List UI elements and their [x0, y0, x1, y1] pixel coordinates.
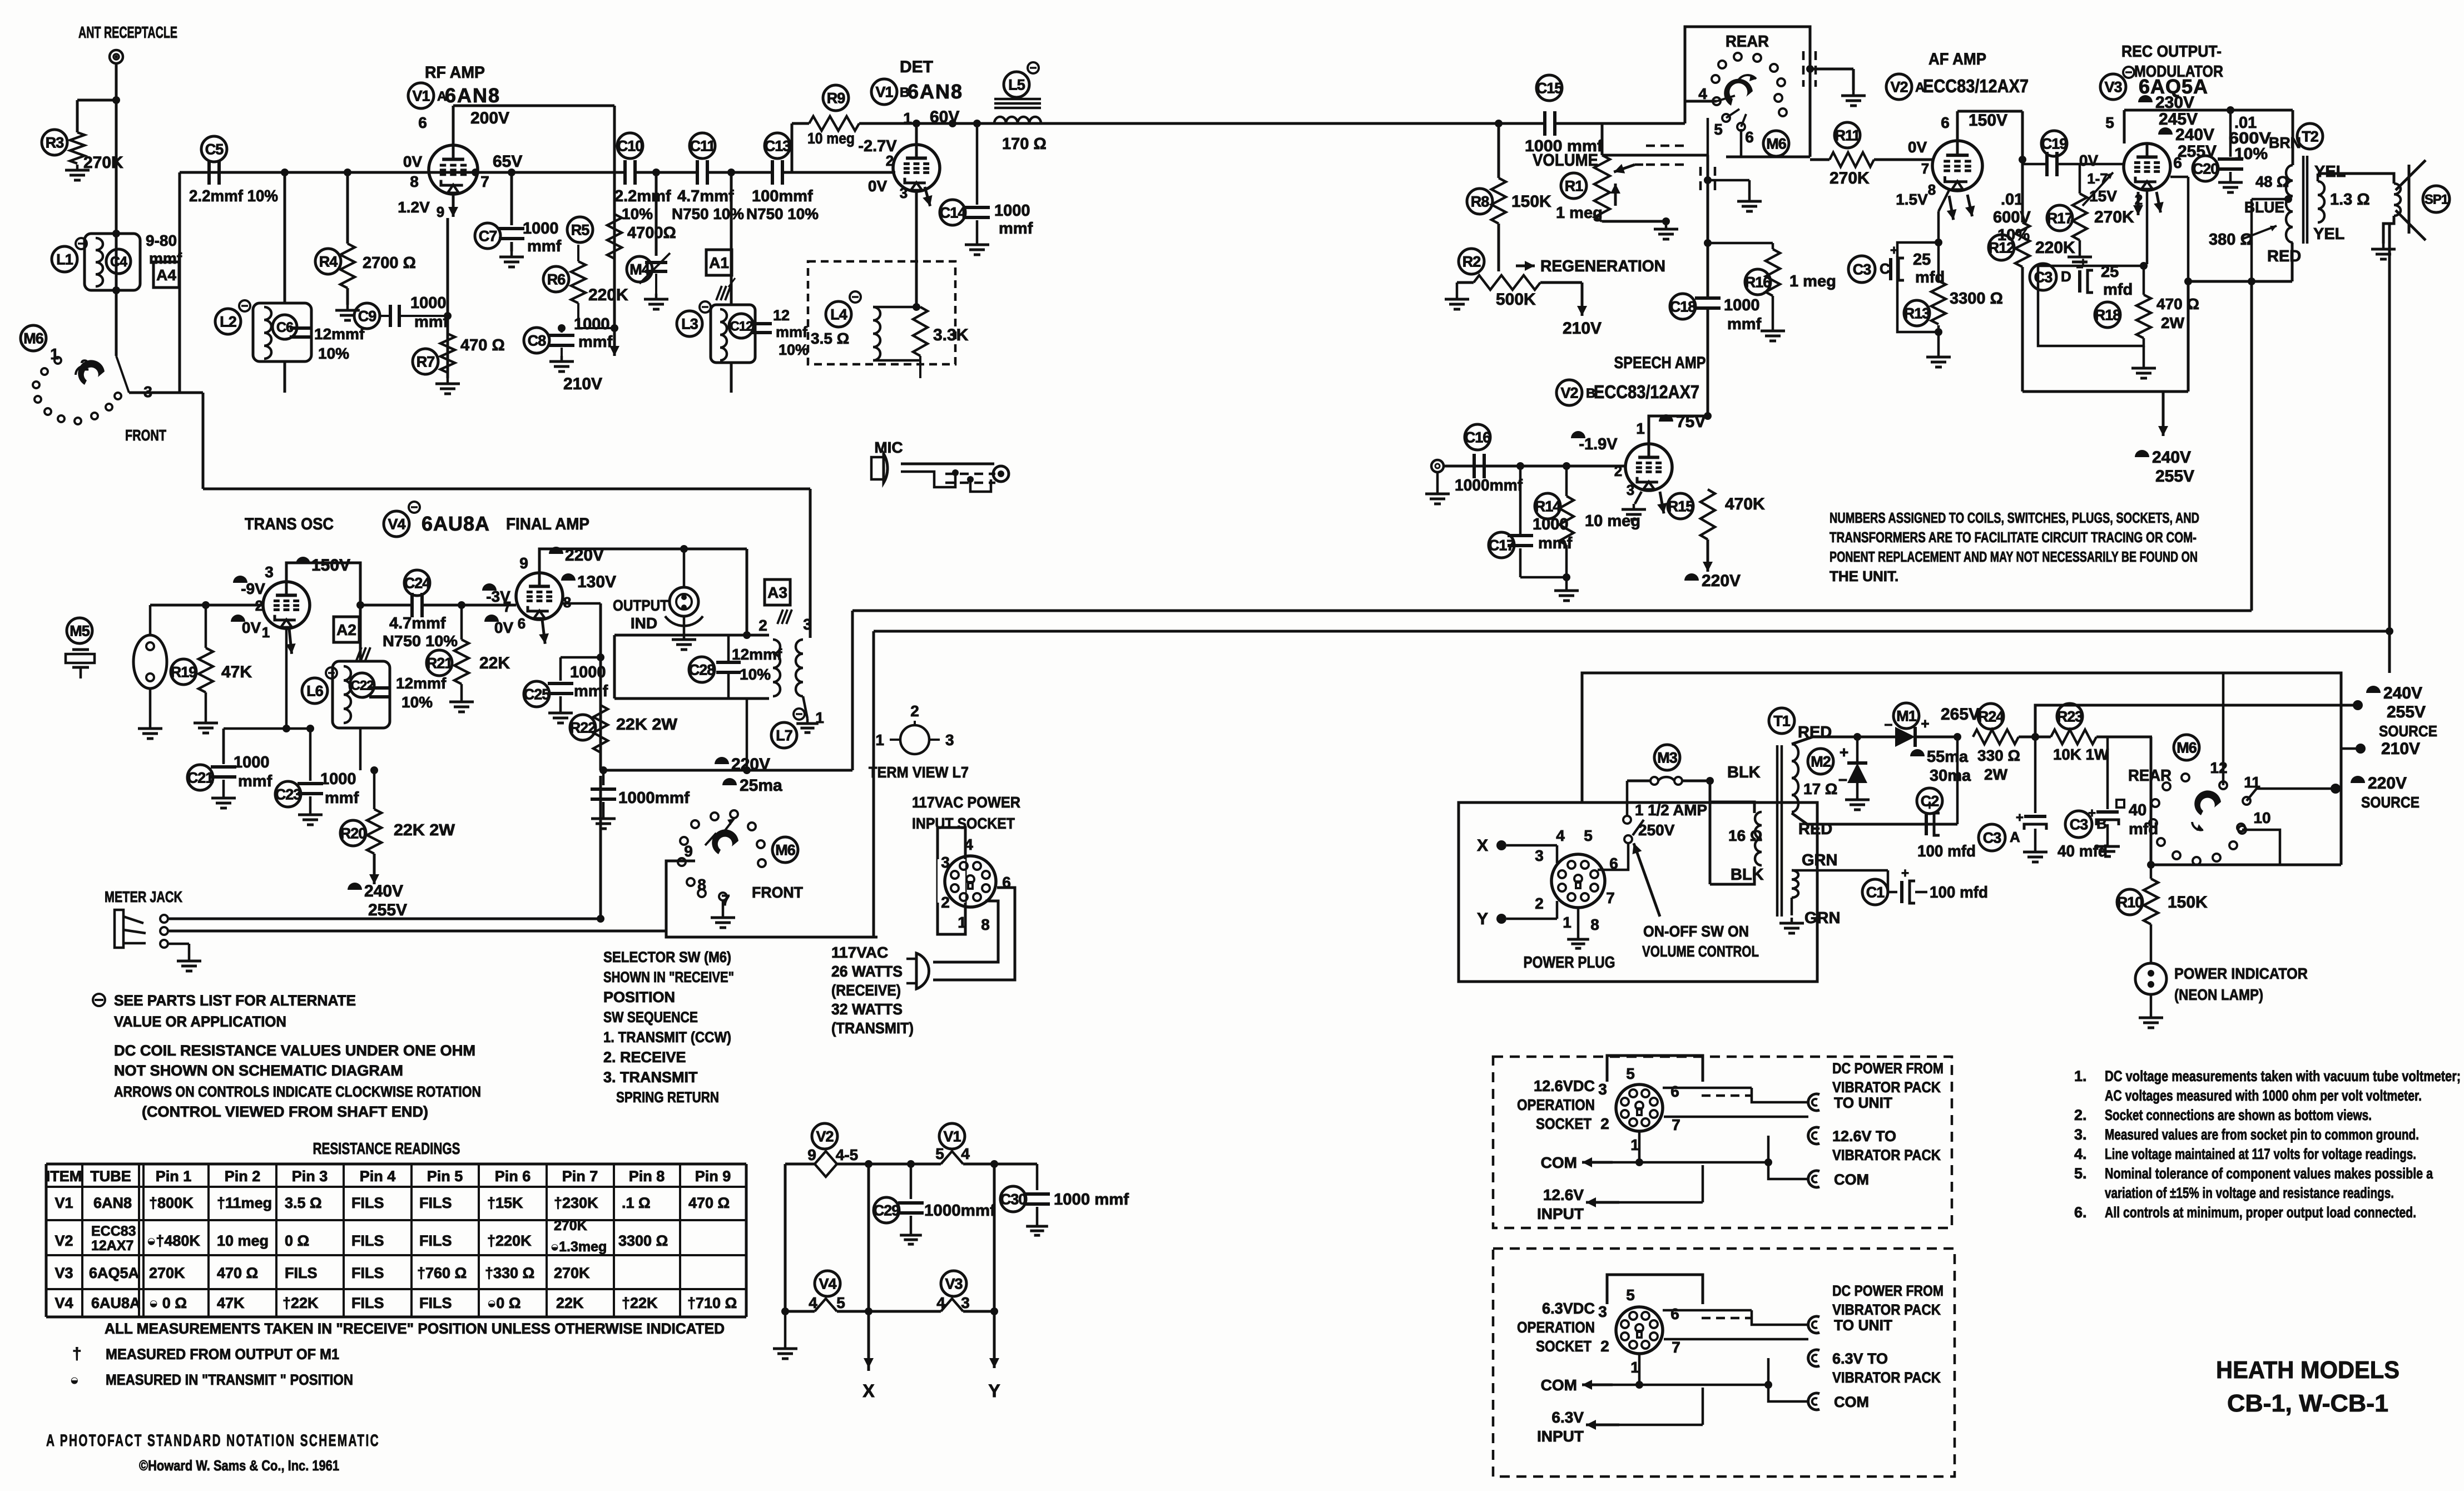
svg-text:26 WATTS: 26 WATTS: [831, 963, 903, 980]
svg-text:C10: C10: [617, 138, 643, 155]
svg-text:NUMBERS ASSIGNED TO COILS, SWI: NUMBERS ASSIGNED TO COILS, SWITCHES, PLU…: [1830, 509, 2199, 526]
svg-text:6: 6: [418, 114, 427, 131]
svg-text:X: X: [862, 1381, 875, 1401]
svg-text:†710 Ω: †710 Ω: [687, 1295, 737, 1311]
svg-text:R3: R3: [46, 135, 64, 151]
svg-text:SP1: SP1: [2425, 192, 2448, 207]
svg-text:255V: 255V: [2387, 703, 2426, 721]
svg-text:OPERATION: OPERATION: [1517, 1319, 1595, 1336]
svg-text:R10: R10: [2117, 894, 2143, 911]
svg-text:HEATH MODELS: HEATH MODELS: [2216, 1356, 2399, 1384]
svg-text:OPERATION: OPERATION: [1517, 1096, 1595, 1113]
svg-text:L7: L7: [776, 727, 792, 744]
svg-text:R7: R7: [417, 354, 435, 370]
svg-text:C19: C19: [2041, 136, 2068, 152]
svg-text:POWER PLUG: POWER PLUG: [1524, 954, 1615, 972]
svg-text:1000: 1000: [320, 770, 356, 788]
svg-text:Pin 5: Pin 5: [427, 1168, 463, 1185]
svg-text:†760 Ω: †760 Ω: [417, 1265, 467, 1281]
svg-text:+: +: [2016, 810, 2024, 825]
svg-text:R20: R20: [340, 825, 366, 842]
svg-text:A PHOTOFACT STANDARD NOTATION: A PHOTOFACT STANDARD NOTATION SCHEMATIC: [46, 1431, 380, 1450]
svg-text:470 Ω: 470 Ω: [217, 1265, 258, 1281]
svg-text:117VAC POWER: 117VAC POWER: [912, 794, 1020, 811]
svg-text:.1 Ω: .1 Ω: [622, 1195, 651, 1211]
svg-text:75V: 75V: [1676, 413, 1706, 431]
svg-text:240V: 240V: [2175, 126, 2214, 144]
svg-text:†15K: †15K: [487, 1195, 523, 1211]
svg-text:9: 9: [437, 204, 444, 220]
svg-text:270K: 270K: [554, 1218, 587, 1234]
svg-text:7: 7: [503, 598, 511, 615]
svg-text:10%: 10%: [622, 205, 653, 222]
svg-text:B: B: [2096, 815, 2107, 832]
svg-text:C5: C5: [205, 141, 224, 158]
svg-text:6AU8A: 6AU8A: [91, 1295, 141, 1311]
svg-text:2. RECEIVE: 2. RECEIVE: [603, 1049, 686, 1066]
svg-text:4: 4: [936, 1294, 945, 1311]
svg-text:4: 4: [1698, 85, 1707, 102]
svg-text:1: 1: [1636, 420, 1645, 437]
svg-text:VIBRATOR PACK: VIBRATOR PACK: [1832, 1369, 1941, 1386]
svg-text:22K 2W: 22K 2W: [394, 821, 455, 839]
svg-text:REAR: REAR: [1726, 33, 1769, 51]
svg-text:AF AMP: AF AMP: [1928, 50, 1986, 68]
svg-text:FILS: FILS: [419, 1195, 452, 1211]
svg-text:12.6V TO: 12.6V TO: [1832, 1128, 1896, 1145]
svg-text:0V: 0V: [242, 619, 261, 636]
svg-text:C24: C24: [404, 575, 431, 592]
svg-text:GRN: GRN: [1804, 909, 1840, 927]
svg-text:†330 Ω: †330 Ω: [485, 1265, 534, 1281]
svg-text:SW SEQUENCE: SW SEQUENCE: [603, 1009, 698, 1026]
svg-text:3. TRANSMIT: 3. TRANSMIT: [603, 1069, 698, 1086]
svg-text:POSITION: POSITION: [603, 989, 675, 1005]
svg-text:D: D: [2061, 268, 2071, 285]
svg-text:R9: R9: [827, 90, 845, 107]
svg-text:REGENERATION: REGENERATION: [1540, 257, 1665, 275]
svg-text:mmf: mmf: [325, 789, 359, 807]
svg-text:+: +: [1926, 798, 1933, 813]
svg-text:TRANSFORMERS ARE TO FACILITATE: TRANSFORMERS ARE TO FACILITATE CIRCUIT T…: [1830, 529, 2197, 546]
svg-text:M3: M3: [1657, 750, 1677, 766]
svg-text:Pin 7: Pin 7: [562, 1168, 598, 1185]
svg-text:R23: R23: [2057, 709, 2084, 725]
svg-text:6.3VDC: 6.3VDC: [1542, 1300, 1595, 1317]
svg-text:(RECEIVE): (RECEIVE): [831, 982, 901, 999]
svg-text:AC voltages measured with 1000: AC voltages measured with 1000 ohm per v…: [2105, 1087, 2422, 1104]
svg-text:2.2mmf 10%: 2.2mmf 10%: [189, 187, 278, 205]
svg-text:3300 Ω: 3300 Ω: [1950, 290, 2003, 308]
svg-text:1.2V: 1.2V: [398, 199, 430, 216]
svg-text:1.5V: 1.5V: [1896, 191, 1928, 208]
svg-text:10: 10: [2253, 809, 2270, 826]
svg-text:COM: COM: [1834, 1394, 1869, 1410]
svg-text:6AQ5A: 6AQ5A: [89, 1265, 139, 1281]
svg-text:1000mmf: 1000mmf: [1455, 477, 1523, 494]
svg-text:2W: 2W: [1984, 766, 2008, 783]
svg-text:VALUE OR APPLICATION: VALUE OR APPLICATION: [114, 1013, 286, 1030]
svg-text:R17: R17: [2047, 210, 2073, 227]
svg-text:TUBE: TUBE: [90, 1168, 131, 1185]
svg-text:3300 Ω: 3300 Ω: [618, 1232, 668, 1249]
svg-text:TRANS OSC: TRANS OSC: [245, 515, 334, 533]
svg-text:mmf: mmf: [527, 237, 562, 255]
svg-text:6: 6: [1670, 1305, 1679, 1322]
svg-text:500K: 500K: [1496, 290, 1536, 309]
svg-text:4-5: 4-5: [836, 1146, 858, 1163]
svg-text:R15: R15: [1668, 498, 1694, 515]
svg-text:150K: 150K: [1511, 192, 1551, 211]
svg-text:170 Ω: 170 Ω: [1002, 135, 1047, 153]
svg-text:SPEECH AMP: SPEECH AMP: [1614, 354, 1706, 372]
svg-text:IND: IND: [631, 615, 657, 632]
svg-text:220V: 220V: [731, 755, 770, 774]
svg-text:POWER INDICATOR: POWER INDICATOR: [2174, 965, 2308, 982]
svg-text:-1.9V: -1.9V: [1579, 435, 1618, 453]
svg-text:R6: R6: [547, 271, 566, 288]
svg-text:T2: T2: [2302, 128, 2318, 145]
svg-text:DC voltage measurements taken: DC voltage measurements taken with vacuu…: [2105, 1068, 2461, 1084]
svg-text:8: 8: [1590, 916, 1599, 933]
svg-text:ECC83: ECC83: [91, 1223, 136, 1239]
svg-text:REC OUTPUT-: REC OUTPUT-: [2121, 43, 2222, 61]
svg-text:48 Ω: 48 Ω: [2255, 173, 2289, 190]
svg-text:TERM VIEW L7: TERM VIEW L7: [869, 764, 969, 781]
svg-text:6: 6: [518, 615, 525, 632]
svg-text:C17: C17: [1489, 537, 1515, 554]
svg-text:2: 2: [941, 894, 950, 911]
svg-text:1000: 1000: [574, 315, 610, 333]
svg-text:Pin 4: Pin 4: [360, 1168, 396, 1185]
svg-text:15V: 15V: [2089, 187, 2117, 205]
svg-text:3: 3: [945, 731, 954, 749]
svg-text:1.: 1.: [2074, 1068, 2087, 1084]
svg-text:T1: T1: [1773, 713, 1790, 730]
svg-text:V1: V1: [54, 1195, 73, 1211]
svg-text:DC POWER FROM: DC POWER FROM: [1832, 1282, 1944, 1299]
svg-text:C29: C29: [874, 1202, 900, 1219]
svg-text:2: 2: [910, 702, 919, 720]
svg-text:Pin 9: Pin 9: [695, 1168, 731, 1185]
svg-text:INPUT SOCKET: INPUT SOCKET: [912, 815, 1015, 832]
svg-text:FRONT: FRONT: [752, 884, 803, 901]
svg-text:5: 5: [1584, 827, 1593, 844]
svg-text:47K: 47K: [217, 1295, 245, 1311]
svg-text:Y: Y: [1477, 910, 1488, 928]
svg-text:RED: RED: [2267, 247, 2301, 265]
svg-text:47K: 47K: [221, 663, 252, 681]
svg-text:FILS: FILS: [419, 1295, 452, 1311]
svg-text:−: −: [1884, 716, 1892, 733]
svg-text:4: 4: [964, 836, 973, 853]
svg-text:mmf: mmf: [776, 324, 808, 340]
svg-text:V1: V1: [943, 1128, 961, 1145]
svg-text:VIBRATOR PACK: VIBRATOR PACK: [1832, 1301, 1941, 1318]
svg-text:M5: M5: [70, 623, 90, 640]
svg-text:L4: L4: [830, 306, 847, 323]
svg-text:5: 5: [935, 1145, 944, 1162]
svg-text:R24: R24: [1978, 709, 2005, 725]
svg-text:5: 5: [1626, 1065, 1635, 1082]
svg-text:M6: M6: [1766, 136, 1786, 152]
svg-text:9: 9: [807, 1146, 816, 1163]
svg-text:A: A: [2010, 829, 2020, 845]
svg-text:N750 10%: N750 10%: [383, 632, 458, 650]
svg-text:10%: 10%: [740, 666, 771, 683]
svg-text:V2: V2: [1890, 79, 1907, 96]
svg-text:1000mmf: 1000mmf: [618, 789, 690, 807]
svg-text:470 Ω: 470 Ω: [688, 1195, 730, 1211]
svg-text:12: 12: [2210, 759, 2227, 776]
svg-text:3.3K: 3.3K: [933, 326, 969, 344]
svg-text:10%: 10%: [2234, 145, 2268, 163]
svg-text:R16: R16: [1745, 274, 1772, 291]
svg-text:L2: L2: [220, 314, 236, 330]
svg-text:MIC: MIC: [874, 439, 903, 456]
svg-text:25: 25: [1913, 251, 1931, 269]
svg-text:A1: A1: [709, 254, 729, 271]
svg-text:100 mfd: 100 mfd: [1917, 843, 1976, 860]
svg-text:1000: 1000: [1533, 516, 1569, 533]
svg-text:−: −: [1838, 771, 1847, 789]
svg-text:1: 1: [958, 914, 966, 931]
svg-text:1 meg: 1 meg: [1556, 204, 1603, 222]
svg-text:10K 1W: 10K 1W: [2053, 746, 2109, 763]
svg-text:C1: C1: [1866, 884, 1885, 901]
svg-text:R13: R13: [1904, 305, 1931, 322]
svg-text:9: 9: [684, 843, 693, 860]
svg-text:YEL: YEL: [2313, 225, 2344, 243]
svg-text:VIBRATOR PACK: VIBRATOR PACK: [1832, 1147, 1941, 1163]
svg-text:25ma: 25ma: [740, 776, 782, 795]
svg-text:R22: R22: [570, 720, 596, 736]
svg-text:Nominal tolerance of component: Nominal tolerance of component values ma…: [2105, 1165, 2433, 1182]
svg-text:†230K: †230K: [554, 1195, 598, 1211]
svg-text:Pin 8: Pin 8: [629, 1168, 665, 1185]
svg-text:1000: 1000: [1724, 296, 1760, 314]
svg-text:R1: R1: [1565, 178, 1583, 195]
svg-text:1-7: 1-7: [2087, 170, 2108, 187]
svg-text:4: 4: [1556, 827, 1565, 844]
svg-text:210V: 210V: [1563, 319, 1602, 338]
svg-text:C25: C25: [524, 686, 551, 703]
svg-text:Y: Y: [988, 1381, 1000, 1401]
svg-text:1: 1: [50, 345, 59, 363]
svg-text:330 Ω: 330 Ω: [1977, 747, 2020, 764]
svg-text:Pin 3: Pin 3: [292, 1168, 328, 1185]
svg-text:1: 1: [903, 110, 912, 127]
svg-text:†22K: †22K: [282, 1295, 319, 1311]
svg-text:Pin 6: Pin 6: [495, 1168, 531, 1185]
svg-text:12: 12: [773, 307, 790, 324]
svg-text:470K: 470K: [1725, 495, 1765, 513]
svg-text:THE UNIT.: THE UNIT.: [1830, 568, 1898, 584]
svg-text:16 Ω: 16 Ω: [1728, 827, 1762, 844]
svg-text:255V: 255V: [2155, 467, 2194, 486]
svg-text:2.: 2.: [2074, 1107, 2087, 1123]
svg-text:2700 Ω: 2700 Ω: [363, 254, 416, 272]
svg-text:mfd: mfd: [1915, 269, 1945, 286]
svg-text:VOLUME CONTROL: VOLUME CONTROL: [1642, 943, 1759, 960]
svg-text:SOCKET: SOCKET: [1536, 1115, 1592, 1132]
svg-text:6AN8: 6AN8: [908, 80, 963, 103]
svg-text:270K: 270K: [149, 1265, 185, 1281]
svg-text:210V: 210V: [563, 375, 602, 393]
svg-text:3.5 Ω: 3.5 Ω: [285, 1195, 322, 1211]
svg-text:†220K: †220K: [487, 1232, 532, 1249]
svg-text:220K: 220K: [2035, 239, 2075, 257]
svg-text:FINAL AMP: FINAL AMP: [506, 515, 589, 533]
svg-text:mmf: mmf: [414, 313, 449, 331]
svg-text:†800K: †800K: [149, 1195, 194, 1211]
svg-text:+: +: [1921, 715, 1929, 732]
svg-text:3: 3: [1627, 482, 1634, 498]
svg-text:L1: L1: [56, 251, 73, 268]
svg-text:M6: M6: [775, 842, 795, 859]
svg-text:FILS: FILS: [351, 1265, 384, 1281]
svg-text:6.: 6.: [2074, 1204, 2087, 1221]
svg-text:3.: 3.: [2074, 1126, 2087, 1143]
svg-text:DC COIL RESISTANCE VALUES UNDE: DC COIL RESISTANCE VALUES UNDER ONE OHM: [114, 1042, 475, 1059]
svg-text:YEL: YEL: [2314, 163, 2346, 181]
svg-text:V2: V2: [54, 1232, 73, 1249]
svg-text:240V: 240V: [364, 882, 403, 900]
svg-text:INPUT: INPUT: [1537, 1428, 1584, 1445]
svg-text:200V: 200V: [470, 109, 509, 127]
svg-text:1000: 1000: [523, 220, 559, 237]
svg-text:A2: A2: [336, 621, 356, 638]
svg-text:(NEON LAMP): (NEON LAMP): [2174, 986, 2263, 1003]
svg-text:V4: V4: [819, 1276, 836, 1292]
svg-text:FILS: FILS: [351, 1232, 384, 1249]
svg-text:ECC83/12AX7: ECC83/12AX7: [1923, 76, 2029, 96]
svg-text:FILS: FILS: [351, 1195, 384, 1211]
svg-text:0 Ω: 0 Ω: [285, 1232, 309, 1249]
svg-text:GRN: GRN: [1802, 851, 1837, 869]
svg-text:6: 6: [1670, 1083, 1679, 1100]
svg-text:12mmf: 12mmf: [396, 675, 447, 692]
svg-text:.01: .01: [2001, 191, 2023, 209]
svg-text:4: 4: [961, 1145, 970, 1162]
svg-text:◒: ◒: [70, 1371, 79, 1388]
svg-text:C7: C7: [479, 228, 497, 245]
svg-text:12mmf: 12mmf: [314, 325, 365, 343]
svg-text:117VAC: 117VAC: [831, 944, 888, 961]
svg-text:SOURCE: SOURCE: [2361, 794, 2420, 811]
svg-text:R14: R14: [1535, 498, 1561, 515]
svg-text:METER JACK: METER JACK: [105, 888, 182, 905]
svg-text:1 meg: 1 meg: [1789, 273, 1836, 290]
svg-text:4700Ω: 4700Ω: [627, 224, 676, 242]
svg-text:470 Ω: 470 Ω: [460, 336, 505, 354]
svg-text:C8: C8: [528, 333, 546, 349]
svg-text:◒†480K: ◒†480K: [147, 1232, 200, 1249]
svg-text:†22K: †22K: [622, 1295, 658, 1311]
svg-text:N750 10%: N750 10%: [672, 205, 744, 222]
svg-text:ALL MEASUREMENTS TAKEN IN "REC: ALL MEASUREMENTS TAKEN IN "RECEIVE" POSI…: [105, 1320, 725, 1337]
svg-text:7: 7: [1672, 1116, 1680, 1133]
svg-text:VIBRATOR PACK: VIBRATOR PACK: [1832, 1079, 1941, 1096]
svg-text:270K: 270K: [2094, 208, 2134, 226]
svg-text:X: X: [1477, 836, 1488, 855]
svg-text:8: 8: [410, 173, 419, 190]
svg-text:R19: R19: [171, 664, 197, 681]
svg-text:3.5 Ω: 3.5 Ω: [811, 330, 849, 347]
svg-text:mmf: mmf: [578, 333, 613, 351]
svg-text:210V: 210V: [2381, 740, 2420, 758]
svg-text:◒1.3meg: ◒1.3meg: [551, 1239, 607, 1255]
svg-text:3: 3: [1535, 847, 1544, 864]
svg-text:1: 1: [262, 624, 270, 641]
svg-text:C3: C3: [1983, 830, 2001, 846]
svg-text:130V: 130V: [577, 573, 616, 591]
svg-text:1: 1: [875, 731, 884, 749]
svg-text:1: 1: [1630, 1359, 1639, 1376]
svg-text:3: 3: [900, 185, 908, 201]
svg-text:22K 2W: 22K 2W: [616, 716, 678, 734]
svg-text:270K: 270K: [554, 1265, 590, 1281]
svg-text:470 Ω: 470 Ω: [2156, 295, 2199, 313]
svg-text:6: 6: [2173, 154, 2182, 171]
svg-text:2W: 2W: [2161, 314, 2185, 331]
svg-text:2: 2: [758, 617, 767, 634]
svg-text:M6: M6: [23, 330, 43, 347]
svg-text:C16: C16: [1465, 429, 1491, 446]
svg-text:2: 2: [1535, 895, 1544, 912]
svg-text:R11: R11: [1835, 127, 1860, 144]
svg-text:1000: 1000: [234, 754, 270, 771]
svg-text:17 Ω: 17 Ω: [1803, 780, 1837, 797]
svg-text:SELECTOR SW (M6): SELECTOR SW (M6): [603, 949, 731, 965]
svg-text:1: 1: [1630, 1136, 1639, 1153]
svg-text:C4: C4: [110, 254, 127, 270]
svg-text:1 1/2 AMP: 1 1/2 AMP: [1635, 801, 1707, 819]
svg-text:(CONTROL VIEWED FROM SHAFT END: (CONTROL VIEWED FROM SHAFT END): [142, 1103, 428, 1120]
svg-text:C13: C13: [765, 138, 791, 155]
svg-text:220V: 220V: [2368, 774, 2407, 792]
svg-text:6AN8: 6AN8: [93, 1195, 132, 1211]
svg-text:22K: 22K: [479, 654, 510, 672]
svg-text:0V: 0V: [403, 153, 423, 170]
svg-text:V2: V2: [1560, 385, 1578, 402]
svg-text:150K: 150K: [2168, 893, 2208, 912]
svg-text:R8: R8: [1471, 194, 1489, 210]
svg-text:10%: 10%: [779, 341, 809, 358]
svg-text:6.3V: 6.3V: [1551, 1409, 1584, 1426]
svg-text:PONENT REPLACEMENT AND MAY NOT: PONENT REPLACEMENT AND MAY NOT NECESSARI…: [1830, 548, 2198, 565]
svg-text:SHOWN IN "RECEIVE": SHOWN IN "RECEIVE": [603, 969, 734, 985]
svg-text:4.7mmf: 4.7mmf: [389, 615, 446, 632]
svg-text:12.6VDC: 12.6VDC: [1534, 1077, 1595, 1094]
svg-text:9-80: 9-80: [146, 232, 177, 249]
svg-text:C9: C9: [358, 308, 376, 325]
svg-text:65V: 65V: [493, 152, 522, 171]
svg-text:SPRING RETURN: SPRING RETURN: [616, 1089, 719, 1106]
svg-text:DC POWER FROM: DC POWER FROM: [1832, 1060, 1944, 1077]
svg-text:0V: 0V: [494, 619, 514, 636]
svg-text:10%: 10%: [318, 345, 349, 362]
svg-text:C15: C15: [1536, 80, 1563, 97]
svg-text:+: +: [1840, 744, 1848, 761]
svg-text:Socket connections are shown a: Socket connections are shown as bottom v…: [2105, 1107, 2372, 1123]
svg-text:6: 6: [1745, 128, 1754, 146]
svg-text:250V: 250V: [1638, 821, 1675, 839]
svg-text:All controls at minimum, prope: All controls at minimum, proper output l…: [2105, 1204, 2416, 1221]
svg-text:+: +: [1901, 866, 1909, 881]
svg-text:1.3 Ω: 1.3 Ω: [2330, 191, 2370, 209]
svg-text:R5: R5: [571, 222, 589, 239]
